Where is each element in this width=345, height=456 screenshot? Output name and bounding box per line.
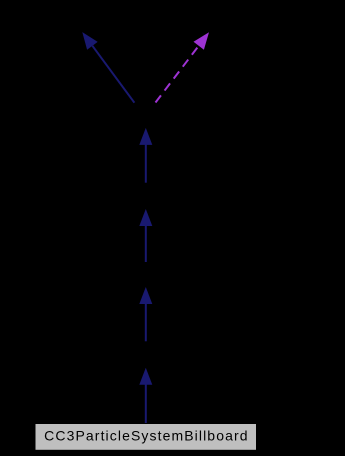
wire: dashed usage arrow to top-right parent — [156, 32, 210, 102]
wire: inheritance arrow C (box3 to box4) — [139, 209, 152, 262]
node CC3ParticleSystemBillboard (current class box) — [35, 424, 257, 451]
wire: inheritance arrow B (box2 to box3) — [139, 287, 152, 341]
svg-text:CC3ParticleSystemBillboard: CC3ParticleSystemBillboard — [44, 428, 248, 444]
wire: solid inheritance arrow to top-left parent — [82, 32, 134, 103]
wire: inheritance arrow D (box4 to box5) — [139, 128, 152, 183]
wire: inheritance arrow A (node CC3ParticleSystemBillboard to parent box2) — [139, 368, 152, 423]
